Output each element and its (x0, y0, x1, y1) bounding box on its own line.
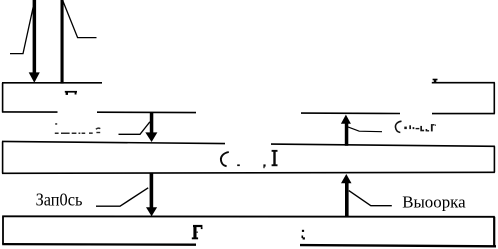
svg-text:Выоорка: Выоорка (402, 193, 466, 212)
svg-text:Зап0сь: Зап0сь (36, 189, 83, 209)
